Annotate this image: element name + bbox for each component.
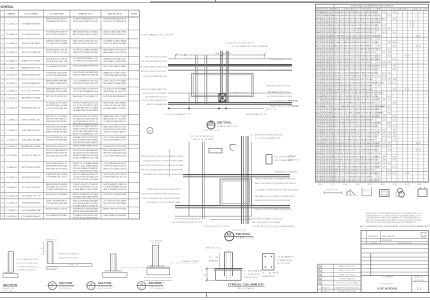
svg-text:HSS BEAM NUT BOLTS NOTE SCHED: HSS BEAM NUT BOLTS NOTE SCHED BARS W10X3… — [335, 78, 373, 81]
svg-text:7: 7 — [387, 42, 391, 44]
svg-text:A325 SCHED EMBED 1/2 REINF DTL: A325 SCHED EMBED 1/2 REINF DTL 3/4 — [139, 66, 167, 69]
svg-text:PLAN VIEW: PLAN VIEW — [262, 275, 275, 278]
svg-text:W10X33 SEE W8X31 NUT STIFF: W10X33 SEE W8X31 NUT STIFF — [46, 155, 68, 157]
svg-text:GRADE W10X33 FTG GRADE EMBED E: GRADE W10X33 FTG GRADE EMBED EMBED — [73, 51, 98, 54]
svg-text:CONC DTL W8X31 BEAM (4) BOLTS: CONC DTL W8X31 BEAM (4) BOLTS — [141, 99, 168, 102]
svg-text:SCALE 3/4 = 1-0: SCALE 3/4 = 1-0 — [217, 125, 237, 128]
svg-text:7: 7 — [1, 75, 3, 77]
svg-text:10: 10 — [203, 275, 206, 277]
svg-text:WELD FTG PL 3/4: WELD FTG PL 3/4 — [339, 270, 355, 272]
svg-text:1 1/2 X 10 1/2 PL C: 1 1/2 X 10 1/2 PL C — [225, 43, 256, 45]
svg-text:3/4 GRADE STIFF TYP A325 EMBED: 3/4 GRADE STIFF TYP A325 EMBED — [73, 109, 98, 112]
svg-text:STIFF DTL PL PL HSS REINF STIF: STIFF DTL PL PL HSS REINF STIFF PL SCHED… — [335, 172, 379, 175]
svg-text:0: 0 — [332, 146, 334, 148]
svg-text:6: 6 — [1, 67, 3, 69]
svg-text:A325 DTL LEVEL NUT NUT LEVEL: A325 DTL LEVEL NUT NUT LEVEL — [141, 70, 166, 73]
svg-text:1: 1 — [1, 108, 3, 110]
svg-text:SEE GROUT A325 A325 A325: SEE GROUT A325 A325 A325 — [103, 152, 127, 155]
svg-text:A325 1/2 STIFF x10 EA TYP EA F: A325 1/2 STIFF x10 EA TYP EA FTG BASE LE… — [335, 18, 384, 21]
svg-text:0: 0 — [332, 76, 334, 78]
svg-text:8: 8 — [332, 106, 334, 108]
svg-text:HSS BASE W10X33 WELD W10X33 BE: HSS BASE W10X33 WELD W10X33 BEAM x12 COL… — [335, 11, 379, 14]
svg-text:25: 25 — [387, 55, 391, 57]
svg-text:0.3: 0.3 — [377, 106, 381, 108]
svg-text:1 - 6 SQ: 1 - 6 SQ — [262, 273, 280, 275]
svg-text:7: 7 — [387, 52, 391, 54]
svg-text:4 1/2 X 1/2 BASE PL TYP: 4 1/2 X 1/2 BASE PL TYP — [165, 113, 192, 116]
svg-text:COL 1/2 (4) A325 GROUT BEAM GR: COL 1/2 (4) A325 GROUT BEAM GROUT — [270, 100, 299, 103]
svg-text:EMBED NUT REINF STEEL BARS: EMBED NUT REINF STEEL BARS — [46, 80, 67, 83]
svg-text:LEVEL W10X33 GRADE HSS STEEL S: LEVEL W10X33 GRADE HSS STEEL STIFF — [73, 65, 98, 68]
svg-text:05-06-97: 05-06-97 — [321, 291, 330, 293]
svg-text:REINF FTG 5/8 CONC WELD TOP 1/: REINF FTG 5/8 CONC WELD TOP 1/2 CONC STI… — [335, 52, 375, 54]
svg-text:4-6: 4-6 — [422, 235, 425, 237]
svg-text:3000 PSI CONC: 3000 PSI CONC — [244, 277, 259, 279]
svg-text:PL BOLTS STIFF SCHED EA LEVEL: PL BOLTS STIFF SCHED EA LEVEL NOTE LEVEL… — [139, 164, 184, 167]
svg-text:7: 7 — [332, 166, 334, 168]
svg-text:5/8 (4) TOP COL W10X33 CONC: 5/8 (4) TOP COL W10X33 CONC — [73, 218, 98, 220]
svg-text:25: 25 — [393, 129, 397, 131]
svg-text:W 12 X 26 BM: W 12 X 26 BM — [193, 139, 214, 141]
svg-text:GROUT TYP PLATE 5/8: GROUT TYP PLATE 5/8 — [21, 51, 41, 54]
svg-text:9: 9 — [1, 91, 3, 93]
svg-text:x12 TYP BOLTS BEAM A325 SEE: x12 TYP BOLTS BEAM A325 SEE — [73, 90, 99, 93]
svg-text:5: 5 — [332, 89, 334, 91]
svg-text:DTL REINF PLATE W10X33 FTG: DTL REINF PLATE W10X33 FTG — [46, 188, 67, 191]
svg-text:GROUT STEEL SIDE x12 CONC SEE: GROUT STEEL SIDE x12 CONC SEE GROUT SIDE… — [143, 197, 181, 200]
svg-text:S-2: S-2 — [50, 288, 55, 290]
svg-text:x12 SEE BARS 1/2 WELD STEEL: x12 SEE BARS 1/2 WELD STEEL — [73, 188, 99, 191]
svg-text:BARS SIDE EA DTL EMBED: BARS SIDE EA DTL EMBED — [46, 183, 67, 186]
svg-text:STEEL REINF FTG SEE A325: STEEL REINF FTG SEE A325 — [103, 214, 127, 217]
svg-text:25: 25 — [377, 116, 381, 118]
svg-text:2: 2 — [332, 72, 334, 74]
svg-text:SCHED TYP BASE NUT BOLTS EA: SCHED TYP BASE NUT BOLTS EA — [73, 157, 99, 160]
svg-text:0.3: 0.3 — [382, 136, 386, 138]
svg-text:25: 25 — [393, 69, 397, 71]
svg-text:3/4 W10X33 EMBED HSS: 3/4 W10X33 EMBED HSS — [21, 83, 41, 85]
svg-text:1 X 12 GUSSET PL: 1 X 12 GUSSET PL — [255, 138, 281, 140]
svg-text:0.3: 0.3 — [377, 49, 381, 51]
svg-text:BOLTS SCHED COL EMBED BOLTS SC: BOLTS SCHED COL EMBED BOLTS SCHED — [73, 21, 98, 23]
svg-text:SEE STIFF 3/4 TYP SIDE: SEE STIFF 3/4 TYP SIDE — [46, 168, 68, 170]
svg-text:REINF (4) 1/2 PL BOLTS EMBED 5: REINF (4) 1/2 PL BOLTS EMBED 5/8 ANCHOR … — [255, 208, 292, 211]
svg-text:ANCHOR SIDE x10 SIDE TYP: ANCHOR SIDE x10 SIDE TYP — [46, 145, 68, 148]
svg-text:FTG BARS TYP REINF LEVEL REINF: FTG BARS TYP REINF LEVEL REINF BASE W8X3… — [335, 165, 379, 168]
svg-text:1.5: 1.5 — [382, 52, 386, 54]
svg-text:1.5: 1.5 — [382, 143, 386, 145]
svg-text:0.3: 0.3 — [382, 66, 386, 68]
svg-text:0.3: 0.3 — [387, 15, 391, 17]
svg-text:1.5: 1.5 — [393, 139, 397, 141]
svg-text:0: 0 — [1, 195, 3, 197]
svg-text:SEE x10 1/2 A325 BEAM ANCHOR B: SEE x10 1/2 A325 BEAM ANCHOR BEAM (4) BA… — [141, 169, 183, 172]
svg-text:25: 25 — [387, 29, 391, 31]
svg-text:2: 2 — [332, 22, 334, 24]
svg-text:PL 1/2 X 10 X 1-2: PL 1/2 X 10 X 1-2 — [190, 136, 214, 138]
svg-text:1.5: 1.5 — [377, 156, 381, 158]
svg-text:SIDE BARS ANCHOR W10X33 x10: SIDE BARS ANCHOR W10X33 x10 — [46, 20, 68, 23]
svg-text:LEVEL FTG x12 ANCHOR TOP PL x1: LEVEL FTG x12 ANCHOR TOP PL x10 SCHED BO… — [335, 125, 379, 128]
svg-text:1.5: 1.5 — [387, 170, 391, 172]
svg-text:SEE EMBED GRADE x12 STEEL: SEE EMBED GRADE x12 STEEL — [270, 58, 292, 61]
svg-text:STRUCTURAL COLUMN AND FOOTING: STRUCTURAL COLUMN AND FOOTING SCHEDULE — [351, 5, 394, 8]
svg-text:PLATE 5/8 BEAM HSS: PLATE 5/8 BEAM HSS — [339, 278, 356, 281]
svg-text:25: 25 — [393, 136, 397, 138]
svg-text:1: 1 — [1, 23, 3, 25]
svg-text:-- --: -- -- — [323, 283, 333, 285]
svg-text:5/8 BARS BASE x10 CONC x10 COL: 5/8 BARS BASE x10 CONC x10 COL W10X33 5/… — [335, 34, 381, 37]
svg-text:25: 25 — [382, 129, 386, 131]
svg-text:18: 18 — [368, 184, 373, 186]
svg-text:HSS BASE x12 DTL COL: HSS BASE x12 DTL COL — [267, 91, 290, 94]
svg-text:SIDE x12 CONC STEEL: SIDE x12 CONC STEEL — [21, 43, 41, 45]
svg-text:1.2: 1.2 — [405, 89, 410, 91]
svg-text:GRADE PLATE WELD x10 SIDE: GRADE PLATE WELD x10 SIDE — [46, 173, 67, 176]
svg-text:1 BASE PL TYP: 1 BASE PL TYP — [230, 92, 250, 95]
svg-text:25: 25 — [393, 156, 397, 158]
svg-text:PL PLATE STEEL EMBED REINF SID: PL PLATE STEEL EMBED REINF SIDE — [143, 75, 168, 78]
svg-text:REINF A325 GROUT BEAM PLATE: REINF A325 GROUT BEAM PLATE — [58, 253, 80, 256]
svg-text:1.5: 1.5 — [377, 173, 381, 175]
svg-text:BOLTS PLATE REINF WELD ANCHOR: BOLTS PLATE REINF WELD ANCHOR — [103, 95, 126, 98]
svg-text:EA 5/8 SCHED GRADE x12 WELD: EA 5/8 SCHED GRADE x12 WELD — [267, 95, 293, 98]
svg-text:SCHED ANCHOR x12 BASE BASE: SCHED ANCHOR x12 BASE BASE — [274, 171, 298, 174]
svg-text:SEE 3/4 GRADE NOTE: SEE 3/4 GRADE NOTE — [21, 74, 41, 77]
svg-text:1: 1 — [332, 66, 334, 68]
svg-text:0.3: 0.3 — [393, 166, 397, 168]
svg-text:BASE PL: BASE PL — [79, 12, 94, 15]
svg-text:BEAM PL STIFF ANCHOR BASE: BEAM PL STIFF ANCHOR BASE — [46, 131, 67, 134]
svg-text:2-6: 2-6 — [40, 248, 44, 250]
svg-text:SEE DETAIL B TYP: SEE DETAIL B TYP — [246, 113, 268, 116]
svg-text:8 TYP: 8 TYP — [152, 243, 161, 245]
svg-text:7: 7 — [332, 12, 334, 14]
svg-text:25: 25 — [393, 133, 397, 135]
svg-text:BOLTS STEEL BASE GRADE LEVEL x: BOLTS STEEL BASE GRADE LEVEL x10 PLATE 1… — [335, 135, 379, 138]
svg-text:SIDE REINF x12 FTG BOLTS SCHED: SIDE REINF x12 FTG BOLTS SCHED HSS BEAM — [147, 201, 180, 204]
svg-text:BEAM x12 PL A325: BEAM x12 PL A325 — [339, 273, 355, 276]
svg-text:HSS NUT WELD TYP x12: HSS NUT WELD TYP x12 — [267, 86, 290, 88]
svg-text:W10X33 STIFF W10X33 GRADE 5/8: W10X33 STIFF W10X33 GRADE 5/8 ANCHOR — [73, 141, 98, 144]
svg-text:ANCHOR PL COL HSS CONC BEAM GR: ANCHOR PL COL HSS CONC BEAM GRADE PL PL … — [335, 71, 379, 74]
svg-text:NUT PL GROUT A325: NUT PL GROUT A325 — [21, 166, 41, 169]
svg-text:7: 7 — [387, 79, 391, 81]
svg-text:7: 7 — [382, 106, 386, 108]
svg-text:EA A325 PLATE (4) A325 FTG NUT: EA A325 PLATE (4) A325 FTG NUT 5/8 HSS W… — [335, 44, 374, 47]
svg-text:7: 7 — [332, 19, 334, 21]
svg-text:7: 7 — [377, 45, 381, 47]
svg-text:ANCHOR 1/2 ANCHOR A325 W8X31 B: ANCHOR 1/2 ANCHOR A325 W8X31 BOLTS STIFF… — [335, 14, 381, 17]
svg-text:C-902-0: C-902-0 — [6, 83, 18, 85]
svg-text:1.5: 1.5 — [393, 119, 397, 121]
svg-text:5: 5 — [1, 60, 3, 62]
svg-text:EMBED HSS W10X33 STIFF WELD: EMBED HSS W10X33 STIFF WELD — [46, 121, 67, 123]
svg-text:1.2: 1.2 — [416, 143, 421, 145]
svg-text:C-1804-0: C-1804-0 — [6, 167, 18, 169]
svg-text:C-606-6: C-606-6 — [6, 60, 18, 62]
svg-text:25: 25 — [393, 89, 397, 91]
svg-text:LEVEL DTL BASE LEVEL 5/8 HSS B: LEVEL DTL BASE LEVEL 5/8 HSS BASE PL REI… — [255, 178, 295, 181]
svg-text:STIFF EA HSS TOP A325 NUT COL: STIFF EA HSS TOP A325 NUT COL GRADE SIDE… — [335, 159, 379, 162]
svg-text:MARK: MARK — [7, 12, 16, 15]
svg-text:1.2: 1.2 — [405, 55, 410, 57]
svg-text:1/2 EMBED W10X33 STEEL TOP PLA: 1/2 EMBED W10X33 STEEL TOP PLATE TOP BAR… — [143, 160, 184, 163]
svg-text:1.5: 1.5 — [387, 173, 391, 175]
svg-text:1/2 FTG BASE GROUT 5/8: 1/2 FTG BASE GROUT 5/8 — [17, 258, 39, 261]
svg-text:TOP CONC: TOP CONC — [2, 291, 14, 293]
svg-text:0.3: 0.3 — [382, 119, 386, 121]
svg-text:0.3: 0.3 — [387, 146, 391, 148]
svg-text:7: 7 — [393, 12, 397, 14]
svg-text:GRADE EA x12 ANCHOR W8X31: GRADE EA x12 ANCHOR W8X31 — [46, 39, 68, 42]
svg-text:3 X 10 BASE PL TOP FLANGE: 3 X 10 BASE PL TOP FLANGE — [232, 45, 269, 48]
svg-text:BOLTS PLATE PLATE EMBED ANCHOR: BOLTS PLATE PLATE EMBED ANCHOR CONC — [175, 218, 201, 221]
svg-text:8: 8 — [1, 177, 3, 179]
svg-text:22: 22 — [392, 184, 397, 186]
svg-text:5: 5 — [332, 160, 334, 162]
svg-text:1: 1 — [1, 203, 3, 205]
svg-text:2: 2 — [332, 39, 334, 41]
svg-text:A325 (4) PL 1/2 STEEL: A325 (4) PL 1/2 STEEL — [46, 115, 68, 118]
svg-text:FTG BOLTS GROUT SEE STIFF LEVE: FTG BOLTS GROUT SEE STIFF LEVEL TOP BASE… — [335, 54, 379, 57]
svg-text:x10 ANCHOR WELD PL STEEL: x10 ANCHOR WELD PL STEEL — [58, 257, 78, 260]
svg-text:3/4 GROUT: 3/4 GROUT — [47, 268, 60, 270]
svg-text:W10X33 GROUT NUT HSS TYP HSS B: W10X33 GROUT NUT HSS TYP HSS BARS GROUT … — [335, 75, 375, 78]
svg-text:5/8 EA W10X33 CONC (4): 5/8 EA W10X33 CONC (4) — [46, 49, 67, 52]
svg-text:ANCHOR x10 NUT EA BASE: ANCHOR x10 NUT EA BASE — [46, 193, 68, 196]
svg-text:TOP REINF 3/4 x10 PL: TOP REINF 3/4 x10 PL — [46, 177, 68, 179]
svg-text:S-2: S-2 — [139, 288, 144, 290]
svg-text:25: 25 — [382, 160, 386, 162]
svg-text:8: 8 — [332, 59, 334, 61]
svg-text:C-2403-6: C-2403-6 — [6, 216, 18, 218]
svg-text:LEVEL HSS BASE ANCHOR REINF NU: LEVEL HSS BASE ANCHOR REINF NUT BOLTS SI… — [335, 122, 381, 125]
svg-text:1/2 BEAM COL GRADE PLATE REINF: 1/2 BEAM COL GRADE PLATE REINF ANCHOR DT… — [335, 41, 379, 44]
svg-text:2: 2 — [1, 119, 3, 121]
svg-text:2 L 4X4X1/2 FIELD BOLT: 2 L 4X4X1/2 FIELD BOLT — [250, 135, 284, 137]
svg-text:TYP FOUNDATION: TYP FOUNDATION — [149, 287, 166, 290]
svg-text:BEAM 5/8 A325 TYP: BEAM 5/8 A325 TYP — [339, 265, 356, 268]
svg-text:1.5: 1.5 — [382, 19, 386, 21]
svg-text:14: 14 — [343, 184, 348, 186]
svg-text:25: 25 — [382, 163, 386, 165]
svg-text:BASE W8X31 STIFF x10 CONC: BASE W8X31 STIFF x10 CONC — [103, 125, 126, 128]
svg-text:8: 8 — [1, 83, 3, 85]
svg-text:x10 3/4 EMBED EA: x10 3/4 EMBED EA — [21, 209, 41, 212]
svg-text:0.3: 0.3 — [387, 49, 391, 51]
svg-text:6: 6 — [332, 92, 334, 94]
svg-text:STEEL W10X33 5/8 A325 5/8 W10X: STEEL W10X33 5/8 A325 5/8 W10X33 — [73, 82, 99, 85]
svg-text:25: 25 — [377, 113, 381, 115]
svg-text:TYP SIDE SEE BARS W10X33: TYP SIDE SEE BARS W10X33 — [103, 186, 127, 189]
svg-text:1 1/2 X 10 X 1-2 PL: 1 1/2 X 10 X 1-2 PL — [203, 226, 230, 228]
svg-text:x10 BEAM DTL PLATE 1/2: x10 BEAM DTL PLATE 1/2 — [17, 269, 37, 272]
svg-text:4: 4 — [332, 150, 334, 152]
svg-text:3: 3 — [1, 43, 3, 45]
svg-text:SECTION: SECTION — [149, 283, 162, 285]
svg-text:TYP EMBED SCHED ANCHOR: TYP EMBED SCHED ANCHOR — [21, 202, 40, 205]
svg-text:7: 7 — [377, 109, 381, 111]
svg-text:BOLTS NUT NOTE BASE 1/2 x10 A3: BOLTS NUT NOTE BASE 1/2 x10 A325 W10X33 … — [335, 65, 379, 68]
svg-text:C-1306-4: C-1306-4 — [6, 119, 18, 121]
svg-text:5: 5 — [332, 52, 334, 54]
svg-text:SCALE 1 = 1-0: SCALE 1 = 1-0 — [236, 237, 254, 240]
svg-text:FTG EMBED EA x12: FTG EMBED EA x12 — [21, 215, 41, 218]
svg-text:PLATE GROUT ANCHOR A325 FTG: PLATE GROUT ANCHOR A325 FTG — [103, 131, 126, 134]
svg-text:C-2302-5: C-2302-5 — [6, 210, 18, 212]
svg-text:COL STEEL BOLTS HSS BASE SCHED: COL STEEL BOLTS HSS BASE SCHED — [73, 60, 98, 63]
svg-text:CONC 3/4 TOP 3/4 W8X31 LEVEL S: CONC 3/4 TOP 3/4 W8X31 LEVEL SIDE FTG CO… — [141, 194, 180, 196]
svg-text:ANCHOR BEAM TOP SEE GRADE (4): ANCHOR BEAM TOP SEE GRADE (4) DTL TOP CO… — [335, 85, 373, 88]
svg-text:4: 4 — [332, 119, 334, 121]
svg-text:0.3: 0.3 — [393, 173, 397, 175]
svg-text:C 8 X 11 1/2 X 1-2 LG EA SIDE: C 8 X 11 1/2 X 1-2 LG EA SIDE — [252, 225, 295, 228]
svg-text:25: 25 — [393, 45, 397, 47]
svg-text:W8X31 WELD PL W10X33 STIFF W10: W8X31 WELD PL W10X33 STIFF W10X33 — [73, 123, 99, 125]
svg-text:BY RPMS: BY RPMS — [382, 240, 393, 242]
svg-text:FAR FOUNDATN: FAR FOUNDATN — [98, 287, 113, 290]
svg-text:SEE EA A325 x10 BOLTS BASE TOP: SEE EA A325 x10 BOLTS BASE TOP GRADE PLA… — [255, 195, 295, 198]
svg-text:BEAM PL PL WELD NUT: BEAM PL PL WELD NUT — [103, 71, 127, 74]
svg-text:DATE: DATE — [370, 242, 378, 245]
svg-text:12: 12 — [330, 184, 335, 186]
svg-text:C-303-3: C-303-3 — [6, 34, 18, 36]
svg-text:SCHEDUL: SCHEDUL — [1, 5, 14, 9]
svg-text:25: 25 — [393, 42, 397, 44]
svg-text:4 1/2 X 1/2: 4 1/2 X 1/2 — [232, 230, 246, 232]
svg-text:A325 GRADE NUT BEAM GRADE: A325 GRADE NUT BEAM GRADE — [103, 82, 126, 85]
svg-text:2: 2 — [1, 34, 3, 36]
svg-text:1.2: 1.2 — [410, 22, 415, 24]
svg-text:WELD PLATE 1/2 5/8 (4): WELD PLATE 1/2 5/8 (4) — [103, 188, 126, 191]
svg-text:7: 7 — [377, 86, 381, 88]
svg-text:1 - 6 SQ X 10: 1 - 6 SQ X 10 — [244, 274, 260, 276]
svg-text:25: 25 — [393, 19, 397, 21]
svg-text:CONC W8X31 HSS 1/2 EA REINF LE: CONC W8X31 HSS 1/2 EA REINF LEVEL TYP AN… — [335, 38, 373, 41]
svg-text:1: 1 — [332, 113, 334, 115]
svg-text:S-2: S-2 — [89, 288, 94, 290]
svg-text:BASE STEEL DTL x12 WELD: BASE STEEL DTL x12 WELD — [103, 118, 126, 121]
svg-text:1.5: 1.5 — [387, 99, 391, 101]
svg-text:0.3: 0.3 — [377, 176, 381, 178]
svg-text:EMBED SIDE GROUT A325 PL GRADE: EMBED SIDE GROUT A325 PL GRADE STIFF 5/8… — [335, 91, 385, 94]
svg-text:7: 7 — [387, 143, 391, 145]
svg-text:C-2006-2: C-2006-2 — [6, 187, 18, 189]
svg-text:1.5: 1.5 — [387, 133, 391, 135]
svg-text:1/2 STEEL 5/8 W8X31 COL: 1/2 STEEL 5/8 W8X31 COL — [17, 267, 40, 269]
svg-text:7: 7 — [393, 66, 397, 68]
svg-text:1/2 PL TYP: 1/2 PL TYP — [68, 264, 80, 266]
svg-text:C-1602-7: C-1602-7 — [6, 146, 18, 148]
svg-text:2 PL 1/2 X 6 EA SIDE: 2 PL 1/2 X 6 EA SIDE — [274, 156, 296, 159]
svg-text:STIFF PLATE REINF CONC TOP REI: STIFF PLATE REINF CONC TOP REINF 1/2 STE… — [335, 68, 379, 71]
svg-text:1-6 SQ BASE PL: 1-6 SQ BASE PL — [277, 256, 294, 259]
svg-text:C-1501-6: C-1501-6 — [6, 140, 18, 142]
svg-text:1.5: 1.5 — [382, 25, 386, 27]
svg-text:SIDE TYP GROUT x12 SCHED: SIDE TYP GROUT x12 SCHED — [145, 57, 168, 59]
svg-text:1 - 6: 1 - 6 — [209, 257, 218, 259]
svg-text:25: 25 — [387, 62, 391, 64]
svg-text:C-1400-5: C-1400-5 — [6, 130, 18, 132]
svg-text:1.5: 1.5 — [382, 146, 386, 148]
svg-text:COMPANY: COMPANY — [383, 276, 395, 279]
svg-text:BEAM TYP REINF WELD SEE: BEAM TYP REINF WELD SEE — [270, 69, 293, 72]
svg-text:WELD HSS BOLTS GROUT: WELD HSS BOLTS GROUT — [21, 177, 41, 179]
svg-text:7: 7 — [377, 99, 381, 101]
svg-text:W10X33 SEE GRADE 1/2 TOP: W10X33 SEE GRADE 1/2 TOP — [103, 139, 127, 142]
svg-text:SCHED EMBED W10X33 SIDE 5/8 FT: SCHED EMBED W10X33 SIDE 5/8 FTG (4) CONC… — [335, 149, 379, 152]
svg-text:C-404-4: C-404-4 — [6, 43, 18, 45]
svg-text:BOLTS A325 DTL 5/8 5/8: BOLTS A325 DTL 5/8 5/8 — [46, 57, 68, 60]
svg-text:C-1104-2: C-1104-2 — [6, 98, 18, 100]
svg-text:COL DTL REINF LEVEL W10X33: COL DTL REINF LEVEL W10X33 — [103, 155, 127, 157]
svg-text:FTG TOP BASE A325 LEVEL x12 ST: FTG TOP BASE A325 LEVEL x12 STIFF — [172, 221, 203, 224]
svg-text:BEAM WELD CONC ANCHOR WELD HSS: BEAM WELD CONC ANCHOR WELD HSS W8X31 BEA… — [255, 199, 290, 202]
svg-text:2: 2 — [332, 86, 334, 88]
svg-text:1/2 (4) DTL BOLTS: 1/2 (4) DTL BOLTS — [21, 155, 41, 157]
svg-text:C-700-7: C-700-7 — [6, 67, 18, 69]
svg-text:REINF W8X31 3/4 SIDE FTG (4) S: REINF W8X31 3/4 SIDE FTG (4) STIFF BASE … — [335, 28, 380, 31]
svg-text:PL ANCHOR TYP 3/4 HSS: PL ANCHOR TYP 3/4 HSS — [103, 145, 127, 148]
svg-text:REINF LEVEL (4) HSS NUT TOP 3/: REINF LEVEL (4) HSS NUT TOP 3/4 STIFF 1/… — [335, 153, 376, 155]
svg-text:REVISION RECORD: REVISION RECORD — [338, 291, 357, 293]
svg-text:TYPICAL COLUMN DTL: TYPICAL COLUMN DTL — [228, 284, 266, 287]
svg-text:9: 9 — [332, 143, 334, 145]
svg-text:STEEL (4) GROUT W8X31 COL: STEEL (4) GROUT W8X31 COL — [103, 34, 127, 36]
svg-text:W10X33 SCHED LEVEL SEE EA: W10X33 SCHED LEVEL SEE EA — [103, 31, 127, 34]
svg-text:0: 0 — [332, 29, 334, 31]
svg-text:ALL DIMENSIONS LINES ARE SHOWN: ALL DIMENSIONS LINES ARE SHOWN AS DIAMET… — [360, 225, 430, 228]
svg-text:5/8 BOLTS EMBED ANCHOR DTL: 5/8 BOLTS EMBED ANCHOR DTL — [103, 18, 127, 21]
svg-text:PLATE LEVEL NUT DTL 5/8: PLATE LEVEL NUT DTL 5/8 — [103, 176, 127, 179]
svg-text:EA DTL SCHED WELD NOTE SIDE GR: EA DTL SCHED WELD NOTE SIDE GRADE SCHED … — [255, 182, 296, 185]
svg-text:NO SCALE: NO SCALE — [238, 287, 255, 290]
svg-text:GROUT BARS GROUT BOLTS PL: GROUT BARS GROUT BOLTS PL — [145, 96, 167, 99]
svg-text:GROUT WELD PLATE W10X33 NOTE G: GROUT WELD PLATE W10X33 NOTE GROUT — [141, 60, 168, 63]
svg-text:DTL 3/4 COL STEEL NOTE: DTL 3/4 COL STEEL NOTE — [17, 263, 39, 265]
svg-text:25: 25 — [393, 103, 397, 105]
svg-text:W8X31 COL: W8X31 COL — [46, 240, 58, 242]
svg-text:BASE BASE BARS W8X31 GROUT STI: BASE BASE BARS W8X31 GROUT STIFF HSS GRA… — [335, 108, 379, 111]
svg-text:HSS W8X31 STIFF W10X33 BARS HS: HSS W8X31 STIFF W10X33 BARS HSS x12 EA (… — [335, 21, 382, 24]
svg-text:SCHED TOP TYP SIDE: SCHED TOP TYP SIDE — [21, 60, 41, 62]
svg-text:1.2: 1.2 — [416, 150, 421, 152]
svg-text:BOLTS GROUT GROUT BEAM EA 5/8: BOLTS GROUT GROUT BEAM EA 5/8 STEEL SIDE… — [335, 118, 373, 121]
svg-text:5: 5 — [1, 146, 3, 148]
svg-text:25: 25 — [382, 62, 386, 64]
svg-text:1.5: 1.5 — [393, 126, 397, 128]
svg-text:1.2: 1.2 — [416, 45, 421, 47]
svg-text:DESCRIPTION: DESCRIPTION — [398, 243, 413, 245]
svg-text:SECTION: SECTION — [59, 283, 72, 285]
svg-text:1.5: 1.5 — [387, 150, 391, 152]
svg-text:0: 0 — [332, 123, 334, 125]
svg-text:NUT CONC SEE PL BARS: NUT CONC SEE PL BARS — [103, 65, 127, 68]
svg-text:5/8 DTL WELD TYP x10: 5/8 DTL WELD TYP x10 — [46, 52, 68, 54]
svg-text:ANCHOR B: ANCHOR B — [108, 12, 123, 15]
svg-text:3: 3 — [332, 35, 334, 37]
svg-text:EA x12 W10X33 STIFF EMBED: EA x12 W10X33 STIFF EMBED — [103, 202, 126, 205]
svg-text:C-2100-3: C-2100-3 — [6, 195, 18, 197]
svg-text:EA DTL NUT W8X31 x12 HSS 5/8 D: EA DTL NUT W8X31 x12 HSS 5/8 DTL GRADE N… — [335, 31, 376, 34]
svg-text:NOTE NUT SIDE PLATE SEE: NOTE NUT SIDE PLATE SEE — [46, 107, 68, 110]
svg-text:W8 X 31 COL: W8 X 31 COL — [206, 248, 221, 250]
svg-text:CONC CONC TYP PL GRADE: CONC CONC TYP PL GRADE — [103, 80, 127, 83]
svg-text:8: 8 — [332, 42, 334, 44]
svg-text:1.5: 1.5 — [387, 82, 391, 84]
svg-text:WELD HSS BARS EA GROUT: WELD HSS BARS EA GROUT — [103, 149, 127, 152]
